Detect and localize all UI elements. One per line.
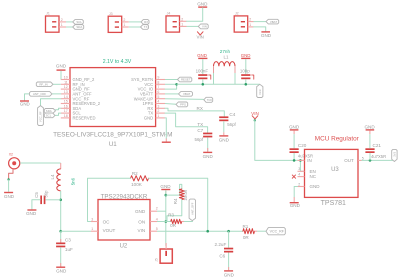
svg-text:VCC_RF: VCC_RF: [270, 229, 285, 233]
wire pin 16: [56, 108, 61, 110]
wire ON pin: [157, 221, 166, 223]
net flag SCL pin17: [44, 113, 55, 118]
ground GND rail: [160, 184, 171, 194]
value C21 4u7X5R: [371, 154, 386, 159]
svg-text:2: 2: [181, 17, 183, 21]
wire VOUT: [61, 230, 91, 232]
svg-text:4: 4: [156, 217, 158, 221]
value C20 4u7X5R: [298, 154, 313, 159]
svg-text:27nh: 27nh: [220, 49, 231, 54]
wire C5 right: [46, 199, 61, 201]
supply VIN arrow: [197, 32, 204, 40]
svg-text:C6: C6: [219, 253, 225, 258]
pin U3 IN: [298, 158, 312, 163]
svg-text:2: 2: [298, 183, 300, 187]
svg-text:RF_IN: RF_IN: [39, 83, 47, 87]
svg-text:56pf: 56pf: [195, 137, 204, 142]
wire RX: [129, 21, 141, 23]
pin 7 VCC_IO: [138, 85, 165, 91]
pin 3 RX: [147, 104, 165, 110]
ground above C20: [289, 125, 300, 131]
svg-text:J2: J2: [235, 12, 239, 16]
svg-text:5n6: 5n6: [71, 177, 76, 185]
svg-text:GND: GND: [289, 125, 300, 130]
svg-text:2: 2: [123, 18, 125, 22]
capacitor C6 2.2uF: [215, 242, 234, 258]
ic U1 TESEO body: [70, 68, 156, 127]
wire pin 11: [53, 83, 61, 85]
wire J4.2 to GND: [187, 8, 203, 21]
wire R3 right: [182, 221, 193, 223]
wire SCL: [66, 21, 73, 23]
capacitor C1 100nF: [196, 69, 211, 80]
junction VIN row 1: [206, 230, 209, 233]
ground C3: [56, 267, 67, 274]
pin 8 VCC: [144, 80, 165, 86]
pin 9 SYS_RSTN: [131, 76, 165, 82]
wire GND to C21: [369, 131, 371, 149]
svg-text:C4: C4: [229, 112, 235, 117]
capacitor C21: [365, 143, 381, 153]
junction VIN: [254, 119, 256, 121]
net flag SDA pin16: [44, 109, 55, 114]
pin lead J4.2: [180, 17, 187, 21]
svg-text:SCL: SCL: [76, 20, 82, 24]
ic U2 refdes: [120, 243, 128, 249]
svg-text:3: 3: [157, 104, 159, 108]
net flag RESET: [178, 77, 192, 82]
svg-text:GND: GND: [20, 101, 30, 106]
resistor R1 0R: [242, 224, 254, 240]
pin lead J1.1: [59, 23, 66, 27]
svg-text:2: 2: [249, 18, 251, 22]
resistor R2 100K: [131, 171, 149, 187]
rf connector X2: [9, 153, 20, 169]
wire to C3: [60, 231, 62, 242]
wire J2.1 to GND: [254, 27, 266, 31]
svg-text:GND: GND: [203, 154, 214, 159]
svg-text:C21: C21: [373, 143, 382, 148]
svg-text:GND: GND: [197, 53, 207, 58]
ic U3 refdes: [331, 167, 339, 173]
ground X2: [4, 192, 15, 199]
svg-text:OC: OC: [103, 220, 111, 225]
svg-text:7: 7: [157, 85, 159, 89]
wire C6 to GND: [228, 253, 230, 271]
pin 2 TX: [148, 109, 165, 115]
svg-text:15: 15: [64, 100, 68, 104]
capacitor C2 100p: [240, 69, 254, 80]
svg-text:VCC_RF: VCC_RF: [39, 111, 43, 122]
svg-text:C5: C5: [34, 192, 39, 198]
svg-text:1: 1: [249, 23, 251, 27]
pin 12 GND_RF: [61, 85, 90, 91]
svg-text:100K: 100K: [131, 182, 143, 187]
svg-text:GND: GND: [197, 1, 208, 6]
wire TX: [129, 26, 141, 28]
ground GND top: [197, 1, 208, 8]
junction GND rail lower: [165, 220, 168, 223]
ground C5: [26, 209, 37, 216]
svg-text:4: 4: [298, 173, 300, 177]
wire pin 14 VCC_RF: [41, 99, 61, 106]
inductor L1 27nh: [214, 49, 236, 66]
wire OUT: [362, 159, 395, 162]
pin lead J4.1: [180, 22, 187, 26]
pin 18 RESERVED: [61, 114, 96, 120]
junction GND rail upper: [165, 194, 168, 197]
svg-text:VIN: VIN: [197, 34, 204, 39]
svg-text:J1: J1: [46, 12, 50, 16]
wire pin 13 ANT_OFF: [25, 94, 61, 100]
wire U2 VIN row: [157, 230, 243, 232]
svg-text:VIN: VIN: [251, 111, 259, 116]
svg-text:L4: L4: [50, 174, 55, 179]
connector J3: [108, 12, 122, 33]
net flag ANT_OFF vertical: [189, 199, 195, 221]
svg-text:OUT: OUT: [344, 158, 354, 163]
svg-text:J4: J4: [167, 12, 171, 16]
svg-text:VBAT: VBAT: [270, 20, 278, 24]
pin 4 1PPS: [142, 100, 165, 106]
pin lead J5: [165, 243, 167, 249]
svg-text:SDA: SDA: [76, 25, 82, 29]
junction VIN row 2: [227, 230, 230, 233]
svg-text:1uF: 1uF: [65, 247, 73, 252]
wire VIN to U3: [255, 120, 305, 160]
svg-text:6: 6: [157, 90, 159, 94]
ground above C1: [197, 53, 207, 59]
junction X2 shield: [7, 178, 9, 180]
ic U1 refdes: [109, 141, 117, 148]
net flag RX: [141, 20, 149, 25]
pin lead J3.2: [122, 18, 129, 22]
svg-text:5: 5: [157, 95, 159, 99]
wire L1 right leg: [234, 66, 236, 84]
svg-text:18: 18: [64, 114, 68, 118]
svg-text:0R: 0R: [170, 223, 177, 228]
pin lead J1.2: [59, 18, 66, 22]
wire C20 to IN: [293, 153, 296, 162]
pin X2 shield: [9, 169, 13, 179]
svg-text:14: 14: [64, 95, 68, 99]
svg-text:L1: L1: [224, 55, 229, 60]
wire R4 top loop: [166, 184, 182, 195]
svg-text:ANT_OFF: ANT_OFF: [33, 92, 46, 96]
svg-text:1: 1: [61, 23, 63, 27]
svg-text:0R: 0R: [243, 235, 250, 240]
ic U3 body: [305, 149, 359, 197]
wire into L4: [60, 163, 62, 169]
svg-text:X2: X2: [9, 153, 13, 157]
wire GND rail vertical: [165, 190, 167, 246]
net flag ANT_OFF: [30, 92, 53, 97]
svg-text:56p: 56p: [44, 190, 49, 198]
pin U2 VIN: [138, 227, 158, 233]
capacitor C3 1uF: [56, 237, 73, 252]
pin U2 OC: [91, 217, 110, 224]
wire VBAT: [254, 21, 267, 23]
svg-text:C7: C7: [197, 128, 203, 133]
svg-text:4: 4: [157, 100, 159, 104]
ic U2 part TPS22943DCKR: [101, 194, 148, 201]
svg-text:56pf: 56pf: [227, 122, 236, 127]
svg-text:12: 12: [64, 85, 68, 89]
svg-text:1: 1: [91, 227, 93, 231]
svg-text:ON: ON: [138, 220, 145, 225]
wire J4.1 to VIN: [187, 25, 199, 27]
svg-text:5: 5: [362, 156, 364, 160]
capacitor C7: [195, 128, 213, 142]
svg-text:C3: C3: [65, 237, 71, 242]
svg-text:GND: GND: [310, 184, 321, 189]
capacitor C5 56p: [34, 190, 49, 204]
svg-text:RESERVED: RESERVED: [73, 115, 96, 120]
svg-text:GND: GND: [56, 269, 67, 274]
net flag VCC_RF out: [266, 228, 285, 235]
pin U3 GND: [298, 183, 321, 190]
capacitor C4: [219, 112, 236, 127]
svg-text:U1: U1: [109, 141, 117, 148]
wire C2 to bus: [245, 79, 248, 85]
svg-text:1: 1: [181, 22, 183, 26]
net label TX: [197, 122, 203, 127]
wire pin 4: [165, 103, 176, 106]
pin 5 WAKE-UP: [134, 95, 165, 101]
wire L1 left leg: [213, 66, 215, 84]
pin lead J3.1: [122, 23, 129, 27]
svg-text:GND: GND: [135, 209, 146, 214]
net flag VBAT pin6: [179, 92, 193, 97]
svg-text:11: 11: [64, 80, 68, 84]
junction L4 C5: [59, 199, 62, 202]
svg-text:J5: J5: [155, 258, 159, 262]
svg-text:4u7X5R: 4u7X5R: [371, 154, 386, 159]
pin 13 ANT_OFF: [61, 90, 92, 96]
ground ANT_OFF: [20, 100, 30, 106]
ground pin1 stub: [162, 139, 171, 143]
svg-text:GND: GND: [4, 194, 15, 199]
ground GND J2: [261, 31, 272, 38]
wire X2 to L4: [20, 162, 61, 164]
junction VOUT: [59, 230, 62, 233]
svg-text:GND: GND: [364, 125, 375, 130]
wire GND to pin 10: [60, 71, 62, 80]
inductor L4 5n6: [50, 169, 61, 191]
wire pin 3 RX: [165, 108, 224, 116]
net label RX: [197, 106, 203, 111]
net flag VBAT: [266, 19, 279, 24]
svg-text:GND: GND: [261, 33, 272, 38]
svg-text:17: 17: [64, 109, 68, 113]
svg-text:RX: RX: [197, 106, 203, 111]
svg-text:100p: 100p: [240, 69, 250, 74]
ic U2 body: [98, 200, 150, 241]
svg-text:GND: GND: [144, 115, 153, 120]
svg-text:13: 13: [64, 90, 68, 94]
net flag SCL: [73, 20, 84, 25]
svg-text:RX: RX: [144, 20, 148, 24]
svg-text:TESEO-LIV3FLCC18_9P7X10P1_STM-: TESEO-LIV3FLCC18_9P7X10P1_STM-M: [53, 132, 172, 139]
wire pin 2 TX: [165, 113, 208, 133]
pin lead J2.2: [248, 18, 254, 22]
wire R1 right: [255, 230, 267, 232]
svg-text:U2: U2: [120, 243, 128, 249]
svg-text:10: 10: [64, 76, 68, 80]
svg-text:2: 2: [156, 206, 158, 210]
ground C6: [224, 270, 235, 277]
wire pin 1 GND: [165, 118, 166, 139]
svg-text:TX: TX: [197, 122, 203, 127]
wire to C6: [228, 231, 230, 248]
svg-text:U3: U3: [331, 167, 339, 173]
wire U3 GND pin: [294, 187, 297, 198]
svg-text:R4: R4: [173, 198, 178, 204]
pin U2 GND: [135, 206, 158, 213]
pin 11 RF_IN: [61, 80, 85, 86]
svg-text:MCU Regulator: MCU Regulator: [315, 135, 360, 142]
svg-text:9: 9: [157, 76, 159, 80]
svg-text:2: 2: [157, 109, 159, 113]
wire pin 5: [165, 98, 204, 101]
wire SDA: [66, 26, 73, 28]
ground above C21: [364, 125, 375, 131]
wire VCC bus: [177, 83, 260, 85]
svg-text:2: 2: [61, 18, 63, 22]
svg-text:VIN: VIN: [138, 228, 146, 233]
svg-text:GND: GND: [219, 137, 230, 142]
wire R3 left: [166, 221, 171, 223]
svg-text:8: 8: [157, 80, 159, 84]
svg-text:3: 3: [91, 217, 93, 221]
svg-text:SDA: SDA: [46, 109, 52, 113]
wire pin 8 VCC: [165, 83, 177, 85]
ic U1 part name: [53, 132, 172, 139]
wire R2 left to OC: [88, 178, 131, 221]
resistor R4 10K: [173, 189, 188, 204]
net flag TX: [141, 25, 149, 30]
voltage note 2.1V to 4.3V: [103, 59, 132, 65]
pin U3 EN: [298, 167, 316, 174]
wire R2 right: [149, 178, 208, 231]
connector J2: [234, 12, 248, 32]
pin 6 VBATT: [140, 90, 165, 96]
pin U3 OUT: [344, 156, 364, 163]
wire C1 to bus: [202, 79, 205, 85]
svg-text:1: 1: [157, 114, 159, 118]
section label MCU Regulator: [315, 135, 360, 142]
svg-text:16: 16: [64, 104, 68, 108]
wire EN tie: [299, 159, 304, 171]
svg-text:100nF: 100nF: [196, 69, 209, 74]
net flag VCC_MCU vertical: [392, 149, 397, 161]
ic U3 part TPS781: [321, 200, 346, 207]
svg-text:1: 1: [123, 23, 125, 27]
connector J4: [166, 12, 180, 32]
svg-text:GND: GND: [26, 211, 37, 216]
svg-text:10K0R: 10K0R: [184, 189, 188, 200]
wire pin 17: [55, 113, 61, 115]
pin lead J2.1: [248, 23, 254, 27]
wire shield to GND: [8, 180, 10, 192]
svg-text:3V3: 3V3: [392, 151, 396, 156]
wire GND to C2: [245, 59, 247, 74]
ground C4: [219, 135, 230, 142]
svg-text:VCC: VCC: [258, 89, 262, 95]
svg-text:EN: EN: [310, 169, 316, 174]
net flag VIN: [198, 24, 208, 29]
ground above C2: [241, 53, 251, 59]
wire GND to C1: [202, 59, 204, 74]
svg-text:J3: J3: [109, 12, 113, 16]
wire R4 bottom: [167, 200, 182, 221]
wire C21 to OUT: [369, 153, 371, 161]
svg-text:TPS781: TPS781: [321, 200, 346, 207]
wire L4 to junction: [60, 191, 62, 231]
no-connect X on NC: [292, 175, 296, 179]
svg-text:ANT_OFF: ANT_OFF: [190, 202, 194, 215]
pin U3 NC: [298, 173, 317, 180]
wire C3 to GND: [60, 247, 62, 266]
ground C7: [203, 152, 214, 160]
wire C4 to GND: [223, 121, 225, 135]
pin 15 RESERVED_2: [61, 100, 101, 106]
svg-text:5: 5: [156, 227, 158, 231]
svg-text:2.2uF: 2.2uF: [215, 242, 227, 247]
net flag PPS: [176, 102, 188, 107]
pin 14 VCC_RF: [61, 95, 90, 101]
svg-text:R2: R2: [132, 171, 138, 176]
connector J5 testpoint: [155, 249, 173, 263]
pin 17 SCL: [61, 109, 82, 115]
svg-text:R3: R3: [168, 212, 174, 217]
net flag VCC_RF vertical: [38, 106, 44, 126]
svg-text:GND: GND: [290, 203, 301, 208]
svg-text:VOUT: VOUT: [103, 228, 116, 233]
svg-text:2.1V to 4.3V: 2.1V to 4.3V: [103, 59, 132, 65]
wire C7 to GND: [207, 137, 209, 151]
ground above pin 10: [56, 64, 67, 71]
svg-text:GND: GND: [56, 64, 67, 69]
wire U2 GND pin: [157, 210, 166, 212]
svg-text:GND: GND: [160, 184, 171, 189]
net flag RF_IN: [36, 82, 53, 87]
net flag SDA: [73, 25, 84, 30]
resistor R3 0R: [168, 212, 182, 228]
net flag VCC vertical: [257, 84, 263, 97]
svg-text:GND: GND: [224, 273, 235, 278]
svg-text:GND: GND: [241, 53, 251, 58]
wire pin 6: [165, 93, 179, 95]
pin 16 SDA: [61, 104, 82, 110]
value 5n6: [71, 177, 76, 185]
svg-text:VIN: VIN: [202, 25, 207, 29]
pin U2 VOUT: [91, 227, 116, 233]
wire GND to C20: [293, 131, 295, 149]
wire VCC tie to pin 7: [165, 84, 177, 89]
capacitor C20: [290, 143, 307, 153]
svg-text:SCL: SCL: [46, 114, 52, 118]
ground U3: [290, 197, 301, 208]
pin 10 GND_RF_2: [61, 76, 95, 82]
pin U2 ON: [138, 217, 157, 224]
connector J1: [46, 12, 60, 33]
svg-text:TX: TX: [144, 25, 148, 29]
supply VIN mid: [251, 111, 259, 119]
svg-text:R1: R1: [242, 224, 248, 229]
svg-text:TCK: TCK: [207, 98, 213, 102]
svg-text:VBAT: VBAT: [183, 92, 191, 96]
